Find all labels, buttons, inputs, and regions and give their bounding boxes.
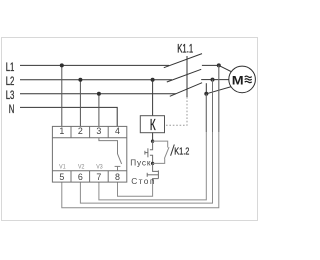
wire from terminal 5 to node L1' (loop back) xyxy=(62,65,219,207)
svg-text:K1.1: K1.1 xyxy=(177,43,193,56)
svg-text:2: 2 xyxy=(78,126,83,136)
wire L3 xyxy=(20,93,176,95)
contactor coil K box xyxy=(140,116,164,133)
contactor contact K1.1 pole 3 xyxy=(170,83,207,97)
svg-text:3: 3 xyxy=(96,126,101,136)
wire N xyxy=(20,107,117,126)
wire L2 xyxy=(20,79,172,81)
svg-text:V2: V2 xyxy=(78,164,84,170)
auxiliary contact K1.2 (self holding branch) xyxy=(153,141,169,163)
wire L2' to motor xyxy=(213,79,238,81)
svg-text:1: 1 xyxy=(59,126,64,136)
K1.1 mechanical linkage (solid part) xyxy=(186,56,188,97)
push button Пуск (NO start button) xyxy=(145,141,153,163)
svg-text:Пуск: Пуск xyxy=(130,158,151,167)
svg-text:7: 7 xyxy=(96,172,101,182)
contactor contact K1.1 pole 1 xyxy=(164,54,219,68)
wire from terminal 8 to Stop button xyxy=(118,179,153,197)
svg-text:К: К xyxy=(150,116,156,134)
svg-text:L2: L2 xyxy=(6,76,15,89)
K1.2 label leader line xyxy=(171,145,175,156)
push button Стоп (NC stop button) xyxy=(147,163,158,181)
svg-text:K1.2: K1.2 xyxy=(174,146,189,157)
svg-text:V1: V1 xyxy=(59,164,65,170)
relay internal output contact (terminal 3 to terminal 8) xyxy=(99,138,122,171)
wire L3' vertical upper segment xyxy=(205,94,207,132)
svg-text:6: 6 xyxy=(78,172,83,182)
wire L2 to coil K xyxy=(152,80,154,116)
wire coil K to node A xyxy=(152,133,154,142)
node dot L1/terminal1 xyxy=(60,63,64,67)
wire L2' vertical upper segment xyxy=(212,80,214,132)
node dot L1' (motor feed) xyxy=(217,63,221,67)
node dot on L2 feeding coil K xyxy=(151,78,155,82)
motor M xyxy=(229,66,256,93)
wire L3' to motor xyxy=(206,85,237,94)
wire L1' vertical upper segment xyxy=(218,65,220,132)
wire from terminal 7 to node L3' (loop back) xyxy=(99,94,206,200)
svg-text:N: N xyxy=(9,103,15,116)
node dot L3' (motor feed) xyxy=(204,92,208,96)
svg-text:M: M xyxy=(232,73,244,87)
border frame xyxy=(2,38,258,221)
relay device box xyxy=(52,126,126,182)
node dot L2' (motor feed) xyxy=(211,78,215,82)
node dot L2/terminal2 xyxy=(78,78,82,82)
svg-text:V3: V3 xyxy=(96,164,102,170)
svg-text:L1: L1 xyxy=(6,62,15,75)
wire L1 xyxy=(20,64,169,66)
wire L1 drop to terminal 1 xyxy=(61,65,63,126)
svg-text:4: 4 xyxy=(115,126,120,136)
wire L3 drop to terminal 3 xyxy=(98,94,100,127)
wire L1' to motor xyxy=(219,65,237,74)
svg-text:5: 5 xyxy=(59,172,64,182)
svg-text:Стоп: Стоп xyxy=(131,176,156,186)
wire from terminal 6 to node L2' (loop back) xyxy=(80,80,212,204)
node dot L3/terminal3 xyxy=(97,92,101,96)
wire L2 drop to terminal 2 xyxy=(79,80,81,127)
svg-text:L3: L3 xyxy=(6,90,15,103)
node B dot (bottom of start button / K1.2 branch) xyxy=(151,162,154,165)
node A dot (top of start button / K1.2 branch) xyxy=(151,140,154,143)
contactor contact K1.1 pole 2 xyxy=(167,69,213,82)
svg-text:8: 8 xyxy=(115,172,120,182)
K1.1 mechanical linkage (dashed part down to coil K) xyxy=(165,97,187,125)
